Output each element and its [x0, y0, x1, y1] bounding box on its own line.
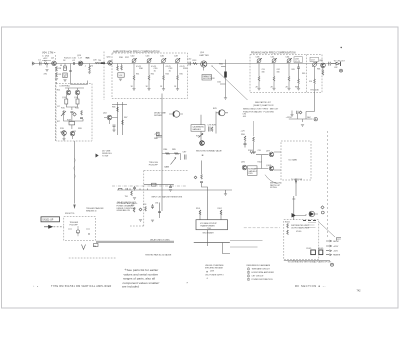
- svg-text:R69: R69: [302, 73, 305, 75]
- transformer primary stub 1: [199, 212, 201, 220]
- driver collector vertical 2: [122, 102, 124, 135]
- coil L28: [95, 63, 100, 64]
- connector row 4 arrow: [326, 254, 332, 256]
- svg-text:GAIN: GAIN: [164, 166, 170, 169]
- svg-text:TIME BASE CIRCUIT: TIME BASE CIRCUIT: [252, 268, 271, 271]
- filled triangle marker: [96, 154, 99, 158]
- svg-text:5: 5: [248, 279, 249, 281]
- svg-text:PG⁄A1 FOR VALUES · PLUG NRS: PG⁄A1 FOR VALUES · PLUG NRS: [243, 111, 274, 114]
- output transistor Q80: [321, 63, 326, 68]
- bus ticks: [140, 189, 147, 191]
- box2 chain4 label box: [294, 57, 303, 63]
- svg-text:SECONDARY: SECONDARY: [203, 232, 215, 235]
- bus tap resistor R80: [156, 135, 162, 137]
- ground below rail: [301, 125, 304, 127]
- svg-text:C99: C99: [258, 150, 261, 152]
- HF2 chain 5 trimmer C72: [312, 62, 317, 67]
- stub 2 resistor: [220, 210, 222, 215]
- driver transistor Q112: [310, 212, 315, 217]
- capacitor C18: [70, 112, 73, 113]
- ground symbol top mid: [290, 115, 293, 117]
- lamp leads: [169, 113, 183, 115]
- svg-text:R25: R25: [86, 58, 89, 60]
- left cluster vertical: [159, 203, 161, 219]
- HF chain 3 trimmer C46: [161, 58, 166, 63]
- box output vertical: [207, 230, 209, 246]
- connector row 2 arrow: [326, 245, 332, 247]
- svg-text:C17: C17: [57, 106, 60, 108]
- parasitic suppressor box label: [202, 75, 212, 81]
- resistor R91: [152, 183, 157, 186]
- chain 4 ground: [176, 89, 179, 91]
- chain 3 ground: [162, 89, 165, 91]
- svg-text:INPUT CKT GAIN SET RESISTORS: INPUT CKT GAIN SET RESISTORS: [152, 196, 183, 199]
- resistor R9: [56, 73, 58, 78]
- resistor R16: [76, 99, 79, 104]
- ground below R2: [45, 69, 48, 71]
- svg-text:R65: R65: [292, 69, 295, 71]
- chain 4 resistor R68: [298, 79, 300, 84]
- transistor Q22A dark: [62, 131, 67, 136]
- svg-text:C82: C82: [334, 67, 337, 69]
- svg-text:⊕: ⊕: [206, 271, 208, 274]
- chain 4 wire: [298, 84, 300, 88]
- neon lamp B76 circle: [219, 110, 225, 116]
- resistor R100 horizontal: [250, 152, 256, 154]
- ref row 3: [247, 275, 264, 278]
- svg-text:4.5-25: 4.5-25: [295, 61, 300, 63]
- HF chain 4 trimmer C49: [175, 58, 180, 63]
- svg-text:R102: R102: [218, 208, 222, 210]
- ground in LF box: [62, 139, 65, 141]
- svg-text:TWISTED PAIR No 20 GAUGE: TWISTED PAIR No 20 GAUGE: [145, 253, 172, 256]
- chain 1 ground: [257, 88, 260, 90]
- svg-text:2: 2: [248, 269, 249, 271]
- svg-text:R72 1030: R72 1030: [311, 90, 319, 92]
- svg-text:VOLTAGE STEPUP: VOLTAGE STEPUP: [200, 222, 217, 225]
- capacitor C92: [169, 185, 172, 188]
- coupling capacitor C16: [74, 62, 75, 65]
- svg-text:DEC: DEC: [307, 117, 312, 119]
- HF2 chain 3 trimmer C64: [287, 58, 292, 63]
- svg-text:OUTPUT AMPLIFIER: OUTPUT AMPLIFIER: [291, 227, 310, 230]
- driver transistor Q110: [292, 213, 297, 218]
- feed lower wire: [202, 183, 208, 196]
- svg-text:AMPLIFIER HIGH FREQ COMPENSAT: AMPLIFIER HIGH FREQ COMPENSATION: [113, 50, 160, 53]
- internal dashed divider: [305, 55, 307, 93]
- HF2 chain 4 cap C68: [297, 64, 300, 80]
- feed side comp: [194, 176, 197, 179]
- wire branch x70.5 down: [71, 64, 88, 85]
- pointer diagonal to note: [212, 66, 248, 100]
- driver ground: [112, 130, 115, 132]
- base bias stub: [203, 67, 205, 71]
- svg-text:T101: T101: [207, 228, 211, 230]
- box4 inner faint rows: [308, 223, 316, 228]
- driver collector vertical 1: [117, 102, 119, 135]
- resistor R20: [81, 111, 83, 116]
- small junction dot: [212, 66, 213, 67]
- svg-text:R67: R67: [124, 117, 127, 119]
- chain 1 ground: [132, 89, 135, 91]
- svg-text:C94: C94: [155, 203, 158, 205]
- trig pickoff line: [156, 136, 162, 138]
- capacitor C1: [40, 62, 42, 66]
- transistor Q24: [78, 61, 83, 66]
- chain 1 wires: [133, 64, 135, 89]
- svg-text:V04. 1TM ≈: V04. 1TM ≈: [42, 51, 56, 55]
- chain 3 wires: [163, 64, 165, 89]
- R78 body: [211, 127, 213, 132]
- transistor Q22B dark: [70, 131, 75, 136]
- capacitor C20: [80, 118, 83, 119]
- svg-text:C78 R78: C78 R78: [208, 125, 217, 127]
- left chain cap C96: [244, 141, 247, 148]
- chain 5 wires: [314, 63, 316, 79]
- svg-text:.1: .1: [85, 65, 87, 67]
- svg-text:+125V: +125V: [286, 117, 293, 119]
- driver base wire: [104, 117, 118, 119]
- output coupling capacitor C82: [329, 62, 330, 66]
- chain 4 resistor R49: [177, 76, 179, 81]
- svg-text:EMITTER: EMITTER: [200, 55, 210, 57]
- arrow stub dashes: [54, 226, 64, 228]
- delay network dark segment: [101, 62, 106, 64]
- lower dash-dot rail: [112, 185, 187, 187]
- svg-text:×10 GAIN: ×10 GAIN: [288, 159, 297, 162]
- adjust arrow R19: [61, 111, 66, 116]
- coupling capacitor C52: [189, 62, 190, 66]
- svg-text:R31: R31: [136, 74, 139, 76]
- svg-text:T30: T30: [98, 60, 101, 62]
- wire node to R12 chain: [64, 64, 66, 67]
- transistor Q103: [269, 166, 274, 171]
- bus comp bracket: [119, 188, 123, 190]
- output terminal arrow: [331, 62, 340, 65]
- svg-text:R32: R32: [151, 74, 154, 76]
- chain wires 2: [273, 64, 275, 89]
- boxed label component: [118, 73, 124, 77]
- feed cap: [200, 182, 203, 183]
- wire to Q97 base: [255, 155, 269, 169]
- interconnect line 3: [230, 246, 258, 248]
- lower left wire: [144, 184, 174, 186]
- chain 4 ground: [297, 88, 300, 90]
- transformer primary stub 2: [220, 212, 222, 220]
- resistor R15: [65, 99, 68, 104]
- svg-text:T95: T95: [76, 233, 79, 235]
- left cluster grounds: [139, 220, 142, 222]
- svg-text:R34: R34: [166, 74, 169, 76]
- driver cap C66: [113, 125, 116, 126]
- interconnect faint lines left of output box: [244, 227, 280, 229]
- box4 top comp row: [303, 220, 316, 222]
- driver horizontal top: [112, 104, 127, 106]
- ground under bus: [224, 98, 227, 100]
- svg-text:SELECTED NOMINAL VALUE: SELECTED NOMINAL VALUE: [196, 150, 222, 153]
- ground under C92: [169, 190, 172, 192]
- ground under R26: [88, 72, 91, 74]
- lamp B76 leads: [216, 112, 228, 114]
- curve pointer to note: [265, 175, 278, 184]
- ref row 4: [247, 278, 273, 281]
- chain 3 resistor R64: [288, 77, 290, 82]
- dashed box high freq compensation 2: [250, 55, 322, 93]
- twisted pair squiggle: [74, 158, 75, 178]
- left cluster upper ground: [133, 198, 136, 200]
- Q112 circle: [309, 211, 315, 217]
- svg-text:R17: R17: [57, 121, 60, 123]
- bus right ground: [225, 190, 227, 194]
- chain 4 wires: [177, 64, 179, 89]
- svg-text:PICKOFF: PICKOFF: [70, 224, 79, 226]
- svg-text:C1035: C1035: [306, 248, 311, 250]
- svg-text:R101: R101: [196, 208, 200, 210]
- svg-text:+: +: [124, 268, 126, 272]
- svg-text:SEE PARTS LIST: SEE PARTS LIST: [255, 101, 272, 104]
- small circle TP: [321, 211, 324, 214]
- dashed trigger pickoff box: [64, 217, 96, 241]
- pot R18: [66, 104, 77, 110]
- plus tick: [292, 198, 295, 200]
- connector row 1 arrow: [326, 240, 332, 242]
- svg-text:470: 470: [90, 65, 93, 67]
- box2 chain5 label box: [310, 57, 319, 61]
- svg-text:POWER DISTRIBUTION: POWER DISTRIBUTION: [252, 279, 274, 281]
- svg-text:CRT CIRCUIT: CRT CIRCUIT: [252, 276, 265, 278]
- rail feed vertical: [253, 121, 255, 136]
- svg-text:TRANSFORMER: TRANSFORMER: [200, 224, 215, 227]
- termination dark comp 1: [311, 250, 316, 255]
- delay line lower rail: [96, 242, 174, 244]
- svg-text:DELAY LINE 170 nSEC: DELAY LINE 170 nSEC: [150, 239, 171, 242]
- feed resistor: [201, 175, 203, 180]
- svg-text:NOTE A: NOTE A: [270, 186, 277, 189]
- ground under C13: [63, 80, 66, 82]
- svg-text:R102: R102: [258, 162, 262, 164]
- svg-text:910: 910: [309, 81, 312, 83]
- C78 R78 pair: [209, 127, 211, 132]
- ground under chain: [119, 79, 122, 81]
- R98 lower wire: [253, 142, 255, 153]
- svg-text:R68: R68: [295, 87, 298, 89]
- dashed box high freq compensation 1: [112, 53, 188, 99]
- wire Q24 emitter: [89, 64, 91, 73]
- branch vertical right: [223, 243, 231, 254]
- left cluster comp 4: [151, 204, 154, 209]
- cal gain adj box: [191, 125, 205, 132]
- chain 3 resistor R46: [163, 76, 165, 81]
- svg-text:DRIVER: DRIVER: [154, 115, 162, 117]
- svg-text:V1030: V1030: [296, 231, 301, 233]
- interconnect line 2: [230, 239, 263, 241]
- decoupling cap on rail: [302, 119, 304, 122]
- diamond adj symbol: [73, 113, 77, 117]
- feed line below chain5: [306, 93, 315, 115]
- delay line upper rail: [96, 240, 174, 242]
- power entry circle: [314, 118, 317, 121]
- right stub vertical: [215, 112, 217, 134]
- svg-text:4.5-25: 4.5-25: [136, 66, 141, 68]
- driver emitter wire: [110, 120, 115, 130]
- dashed run below trigger box: [69, 257, 116, 259]
- delay line left termination: [94, 244, 99, 247]
- vert out line with arrow: [295, 179, 297, 197]
- svg-text:+425V: +425V: [333, 246, 339, 248]
- transistor Q4: [52, 61, 57, 66]
- box3 internal wires: [274, 152, 281, 170]
- gain pot arrow: [171, 158, 177, 165]
- svg-text:330: 330: [262, 71, 265, 73]
- svg-text:+12V: +12V: [154, 134, 160, 136]
- svg-text:PICKOFF: PICKOFF: [149, 165, 159, 167]
- svg-text:GIVEN BELOW: GIVEN BELOW: [117, 210, 130, 212]
- chain 5 resistor R72: [314, 79, 316, 84]
- resistor R85: [175, 153, 179, 155]
- mid cluster wire: [71, 125, 73, 129]
- left cluster upper comp a: [133, 186, 136, 191]
- dashed box gain switch: [281, 141, 311, 180]
- long dashed divider right: [327, 131, 329, 239]
- arrowhead on line: [73, 205, 75, 210]
- delay driver transistor Q64: [107, 115, 112, 120]
- chain 2 ground: [272, 88, 275, 90]
- stray ink fleck: [341, 47, 342, 48]
- resistor R67 on vertical 2: [122, 120, 124, 125]
- toroid T95 circles: [76, 230, 79, 233]
- serial stamp box: [41, 217, 60, 222]
- R80 body: [157, 132, 160, 135]
- emitter network R26: [89, 66, 91, 71]
- diagonal to connector list: [319, 222, 335, 237]
- ref row 1: [247, 268, 270, 271]
- second chain resistor R98: [253, 137, 255, 142]
- chain wires 3: [288, 64, 290, 89]
- svg-text:PEAKING HIGH FREQ COMPENSATIO: PEAKING HIGH FREQ COMPENSATION: [251, 51, 296, 54]
- connector row 3 arrow: [326, 250, 332, 252]
- svg-text:R94: R94: [93, 246, 96, 248]
- test point circle TP80: [340, 69, 343, 72]
- HF2 chain 2 trimmer C61: [272, 58, 277, 63]
- svg-text:[SHEET] CHART FOR: [SHEET] CHART FOR: [254, 104, 274, 107]
- transistor Q97: [269, 152, 274, 157]
- cal chain vertical: [200, 115, 202, 146]
- svg-text:R1021: R1021: [285, 222, 290, 224]
- HF chain 1 trimmer C40: [132, 58, 137, 63]
- svg-text:4.5-25: 4.5-25: [180, 66, 185, 68]
- HF chain 2 trimmer C43: [147, 58, 152, 63]
- vertical bus mid left: [161, 94, 163, 212]
- arrowhead down: [295, 181, 297, 185]
- left cluster comp 3: [145, 207, 147, 212]
- Q80 emitter resistor: [322, 71, 324, 76]
- svg-text:Q64: Q64: [103, 113, 107, 115]
- svg-text:⊙: ⊙: [207, 277, 209, 280]
- wire R2 to ground: [46, 64, 48, 68]
- svg-text:Q103: Q103: [266, 165, 272, 167]
- variable resistor R19: [63, 111, 65, 116]
- transistor Q95: [242, 165, 247, 170]
- svg-text:68: 68: [60, 65, 62, 67]
- bus branch resistor: [220, 67, 226, 85]
- svg-text:TO VERT SW: TO VERT SW: [291, 179, 302, 181]
- svg-text:RF SECTION ⊕ →·: RF SECTION ⊕ →·: [295, 284, 327, 288]
- terminal tick: [340, 62, 342, 67]
- bus comp pair: [126, 188, 130, 190]
- stub 1 resistor: [199, 210, 201, 215]
- capacitor C87: [185, 155, 187, 160]
- input arrow into trigger box: [44, 225, 53, 228]
- svg-text:are included: are included: [122, 284, 139, 288]
- left cluster upper comp b: [131, 191, 133, 196]
- ref row 2: [247, 271, 274, 274]
- resistor R84: [166, 153, 170, 155]
- chain 5 lower wire: [314, 84, 316, 93]
- svg-text:R12: R12: [64, 68, 67, 70]
- dashed divider x104: [103, 52, 105, 101]
- chain 3 ground: [287, 88, 290, 90]
- svg-text:OSC POWER SUPPLY: OSC POWER SUPPLY: [205, 275, 224, 277]
- neon lamp B74 circle: [173, 111, 179, 117]
- collector load chain R36: [117, 64, 119, 67]
- svg-text:TO DISTRIBUTED VERT SIGNAL PLA: TO DISTRIBUTED VERT SIGNAL PLATES OF CRT: [288, 261, 333, 264]
- chain 2 resistor R61: [273, 77, 275, 82]
- rail riser: [298, 114, 307, 120]
- feed vertical to transformer: [207, 196, 209, 220]
- junction drop: [180, 154, 182, 161]
- wires under Q pair: [64, 136, 73, 140]
- svg-text:4.5-25: 4.5-25: [166, 66, 171, 68]
- svg-text:4: 4: [248, 276, 249, 278]
- box4 output line down: [284, 259, 330, 262]
- svg-text:C· 1⁄64: C· 1⁄64: [42, 55, 50, 57]
- transistor Q14A: [66, 90, 71, 95]
- bead dark blob on bus: [224, 72, 227, 78]
- mid cluster resistor R21: [69, 122, 75, 125]
- svg-text:GEOM: GEOM: [333, 241, 339, 243]
- dashed box low freq compensation: [56, 84, 92, 142]
- diamond marker near Q112: [321, 206, 324, 209]
- svg-text:R100: R100: [248, 150, 254, 152]
- svg-text:R35: R35: [180, 74, 183, 76]
- twisted pair arrow V: [82, 245, 86, 250]
- svg-text:See parts list for earlier: See parts list for earlier: [127, 268, 159, 272]
- trigger box inner dot: [88, 233, 89, 234]
- svg-text:HORIZONTAL AMPLIFIER: HORIZONTAL AMPLIFIER: [252, 271, 275, 274]
- box4 left chain resistor: [287, 224, 289, 229]
- ground on bus right: [224, 194, 227, 196]
- long horizontal bus lower: [117, 189, 232, 191]
- left cluster ground 2: [151, 220, 154, 222]
- chain 2 wires: [148, 64, 150, 89]
- ground stub top: [291, 111, 293, 115]
- Q80 emitter drop: [322, 68, 324, 71]
- wire tops of Q pair: [69, 88, 78, 90]
- output stage vertical: [293, 196, 295, 220]
- dashed stub left: [130, 225, 144, 227]
- chain wires 1: [258, 64, 260, 89]
- signal line down from LF box: [74, 141, 76, 204]
- transistor Q78 blob: [200, 141, 205, 146]
- ground under R9: [55, 78, 58, 80]
- svg-text:-150V: -150V: [333, 251, 339, 253]
- svg-text:742: 742: [357, 289, 362, 292]
- crossing horizontal: [194, 242, 230, 244]
- HF2 chain 1 trimmer C58: [257, 58, 262, 63]
- chain 2 resistor R43: [148, 76, 150, 81]
- svg-text:LOW FREQ: LOW FREQ: [60, 86, 71, 88]
- peaking coil L17: [79, 62, 83, 65]
